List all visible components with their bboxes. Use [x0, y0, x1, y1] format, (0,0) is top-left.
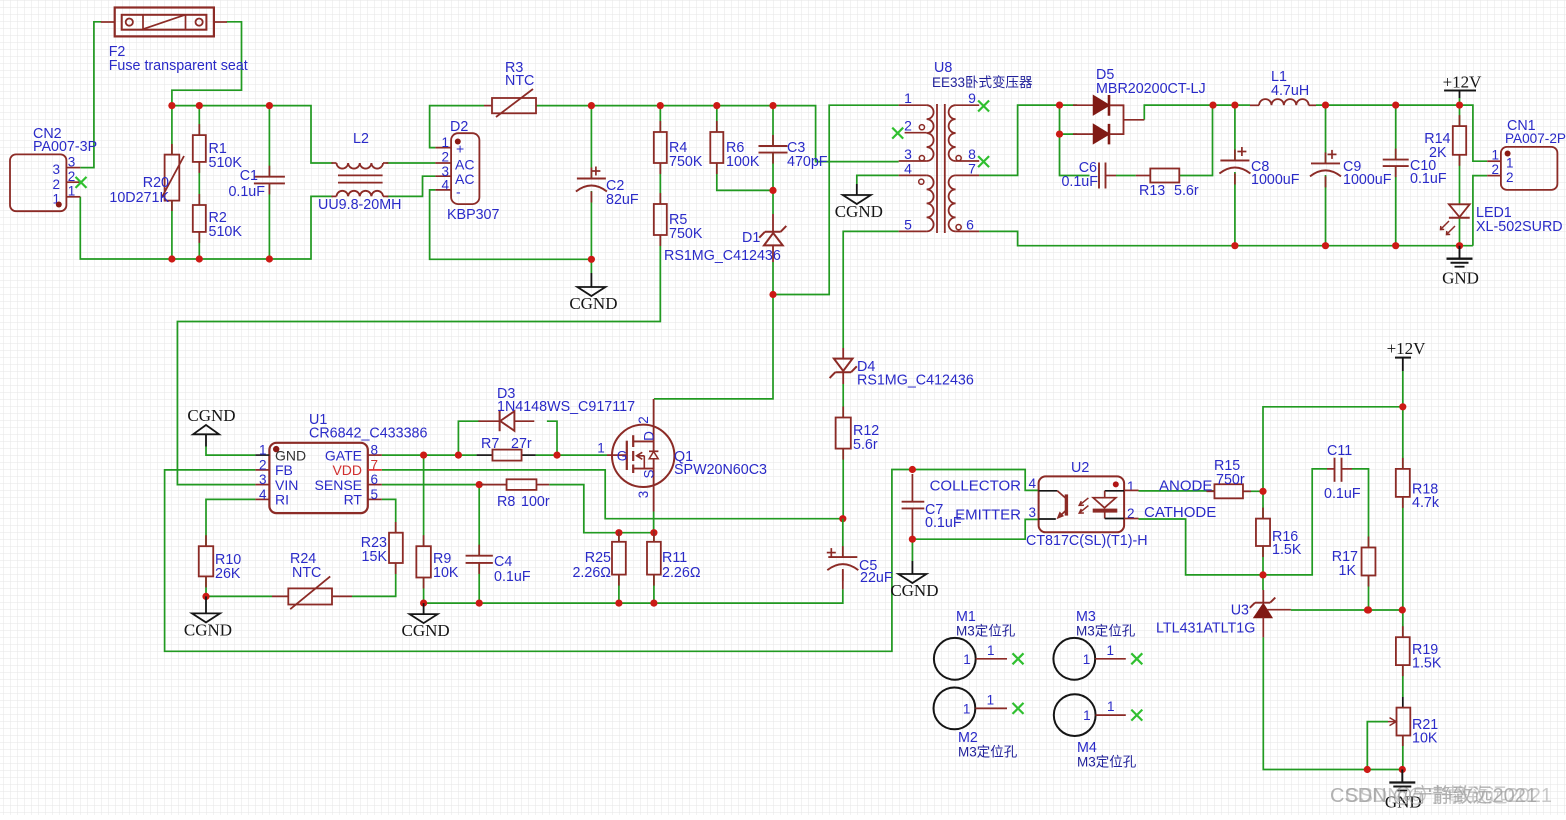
svg-text:1: 1 [1107, 643, 1115, 658]
svg-text:82uF: 82uF [606, 192, 639, 208]
svg-text:C1: C1 [240, 168, 258, 184]
svg-text:3: 3 [52, 162, 60, 177]
svg-text:PA007-2P: PA007-2P [1505, 131, 1566, 146]
svg-text:4: 4 [1028, 476, 1036, 491]
svg-text:100r: 100r [521, 494, 550, 510]
svg-text:750r: 750r [1216, 472, 1245, 488]
svg-text:27r: 27r [511, 436, 532, 452]
svg-text:+: + [456, 141, 464, 157]
svg-text:4: 4 [259, 487, 267, 502]
svg-text:4.7k: 4.7k [1412, 495, 1440, 511]
svg-text:R7: R7 [481, 436, 499, 452]
svg-text:1: 1 [1083, 652, 1091, 667]
svg-text:CGND: CGND [569, 294, 617, 313]
svg-text:750K: 750K [669, 154, 703, 170]
svg-text:R11: R11 [662, 550, 687, 566]
svg-text:10K: 10K [433, 565, 459, 581]
svg-text:LTL431ATLT1G: LTL431ATLT1G [1156, 621, 1255, 637]
svg-text:NTC: NTC [505, 73, 534, 89]
svg-text:8: 8 [371, 443, 379, 458]
svg-text:4: 4 [441, 178, 449, 193]
svg-text:1: 1 [987, 643, 995, 658]
svg-text:26K: 26K [215, 566, 241, 582]
svg-text:RS1MG_C412436: RS1MG_C412436 [857, 373, 974, 389]
svg-text:1000uF: 1000uF [1343, 172, 1392, 188]
svg-text:R20: R20 [143, 175, 169, 191]
svg-text:SENSE: SENSE [315, 477, 362, 493]
svg-text:2.26Ω: 2.26Ω [572, 565, 611, 581]
svg-text:1: 1 [904, 90, 912, 106]
svg-text:5.6r: 5.6r [853, 437, 878, 453]
svg-text:0.1uF: 0.1uF [494, 569, 531, 585]
svg-text:S: S [642, 469, 657, 478]
svg-text:5: 5 [904, 217, 912, 233]
svg-text:1: 1 [963, 652, 971, 667]
svg-text:100K: 100K [726, 154, 760, 170]
svg-text:1.5K: 1.5K [1412, 656, 1442, 672]
svg-text:1: 1 [1107, 699, 1115, 714]
svg-text:10D271K: 10D271K [109, 190, 169, 206]
svg-text:1: 1 [963, 701, 971, 716]
svg-text:D1: D1 [742, 230, 760, 246]
svg-text:VDD: VDD [332, 462, 362, 478]
svg-text:U3: U3 [1231, 603, 1249, 619]
svg-text:U8: U8 [934, 60, 952, 76]
svg-text:GATE: GATE [325, 447, 362, 463]
svg-text:0.1uF: 0.1uF [1324, 486, 1361, 502]
svg-text:U2: U2 [1071, 460, 1089, 476]
svg-text:PA007-3P: PA007-3P [33, 139, 97, 155]
svg-text:1000uF: 1000uF [1251, 172, 1300, 188]
svg-text:M3定位孔: M3定位孔 [956, 624, 1016, 639]
svg-text:10K: 10K [1412, 731, 1438, 747]
svg-text:CSDN @宁静致远2021: CSDN @宁静致远2021 [1345, 784, 1552, 807]
svg-text:6: 6 [371, 472, 379, 487]
svg-text:9: 9 [968, 90, 976, 106]
svg-text:22uF: 22uF [860, 570, 893, 586]
svg-text:FB: FB [275, 462, 293, 478]
svg-text:2: 2 [68, 169, 76, 184]
svg-text:CGND: CGND [890, 581, 938, 600]
svg-text:M3定位孔: M3定位孔 [1076, 624, 1136, 639]
svg-text:COLLECTOR: COLLECTOR [930, 478, 1022, 495]
svg-text:CGND: CGND [835, 202, 883, 221]
svg-text:RI: RI [275, 492, 289, 508]
svg-text:0.1uF: 0.1uF [228, 184, 265, 200]
svg-text:1: 1 [1491, 148, 1499, 163]
svg-text:2: 2 [904, 118, 912, 134]
svg-text:L2: L2 [353, 131, 369, 147]
svg-text:2.26Ω: 2.26Ω [662, 565, 701, 581]
svg-text:M3定位孔: M3定位孔 [1077, 755, 1137, 770]
svg-text:7: 7 [968, 161, 976, 177]
svg-text:4.7uH: 4.7uH [1271, 83, 1309, 99]
svg-text:0.1uF: 0.1uF [1061, 174, 1098, 190]
svg-text:C4: C4 [494, 554, 512, 570]
svg-text:XL-502SURD: XL-502SURD [1476, 219, 1563, 235]
svg-text:VIN: VIN [275, 477, 298, 493]
svg-text:RT: RT [344, 492, 363, 508]
svg-text:-: - [456, 184, 461, 200]
svg-text:1: 1 [1506, 156, 1514, 171]
svg-text:Fuse transparent seat: Fuse transparent seat [109, 58, 248, 74]
svg-text:D: D [642, 431, 657, 441]
svg-text:CATHODE: CATHODE [1144, 504, 1216, 521]
svg-text:M3定位孔: M3定位孔 [958, 745, 1018, 760]
svg-text:2: 2 [259, 457, 267, 472]
svg-text:6: 6 [966, 217, 974, 233]
svg-text:EMITTER: EMITTER [955, 507, 1021, 524]
svg-text:CGND: CGND [402, 621, 450, 640]
svg-text:0.1uF: 0.1uF [1410, 171, 1447, 187]
svg-text:+12V: +12V [1387, 339, 1427, 358]
svg-text:4: 4 [904, 161, 912, 177]
svg-text:7: 7 [371, 457, 379, 472]
svg-text:R25: R25 [585, 550, 611, 566]
svg-text:2: 2 [636, 416, 651, 424]
svg-text:510K: 510K [209, 224, 243, 240]
svg-text:SPW20N60C3: SPW20N60C3 [674, 462, 767, 478]
svg-text:470pF: 470pF [787, 154, 828, 170]
svg-text:2: 2 [1491, 162, 1499, 177]
svg-text:R13: R13 [1139, 183, 1165, 199]
svg-text:CGND: CGND [187, 406, 235, 425]
svg-text:+12V: +12V [1443, 73, 1483, 92]
svg-text:1.5K: 1.5K [1272, 542, 1302, 558]
svg-text:1: 1 [1127, 479, 1135, 494]
svg-text:R8: R8 [497, 494, 515, 510]
svg-text:GND: GND [1442, 269, 1479, 288]
svg-text:3: 3 [68, 155, 76, 170]
svg-text:MBR20200CT-LJ: MBR20200CT-LJ [1096, 81, 1206, 97]
svg-text:510K: 510K [209, 155, 243, 171]
svg-text:UU9.8-20MH: UU9.8-20MH [318, 197, 401, 213]
svg-text:CR6842_C433386: CR6842_C433386 [309, 426, 427, 442]
svg-text:1: 1 [441, 135, 449, 150]
svg-text:3: 3 [636, 491, 651, 499]
svg-text:3: 3 [259, 472, 267, 487]
svg-text:1: 1 [1083, 708, 1091, 723]
svg-text:1: 1 [597, 441, 605, 456]
svg-text:1N4148WS_C917117: 1N4148WS_C917117 [497, 399, 635, 415]
svg-text:CGND: CGND [184, 620, 232, 639]
svg-text:KBP307: KBP307 [447, 207, 500, 223]
svg-text:3: 3 [1028, 505, 1036, 520]
svg-text:2: 2 [1506, 170, 1514, 185]
svg-text:5: 5 [371, 487, 379, 502]
svg-text:G: G [617, 449, 628, 464]
svg-text:15K: 15K [362, 549, 388, 565]
svg-text:2K: 2K [1429, 145, 1447, 161]
svg-text:D2: D2 [450, 119, 468, 135]
svg-text:1: 1 [259, 443, 267, 458]
svg-text:CT817C(SL)(T1)-H: CT817C(SL)(T1)-H [1026, 533, 1148, 549]
svg-text:NTC: NTC [292, 565, 321, 581]
svg-text:RS1MG_C412436: RS1MG_C412436 [664, 248, 781, 264]
svg-text:2: 2 [52, 177, 60, 192]
svg-text:EE33卧式变压器: EE33卧式变压器 [932, 75, 1033, 90]
svg-text:ANODE: ANODE [1159, 478, 1212, 495]
svg-text:1: 1 [987, 692, 995, 707]
svg-text:750K: 750K [669, 226, 703, 242]
svg-text:5.6r: 5.6r [1174, 183, 1199, 199]
svg-text:1K: 1K [1339, 563, 1357, 579]
svg-text:C11: C11 [1327, 443, 1352, 459]
svg-text:GND: GND [275, 447, 306, 463]
svg-text:2: 2 [441, 150, 449, 165]
svg-text:1: 1 [68, 184, 76, 199]
